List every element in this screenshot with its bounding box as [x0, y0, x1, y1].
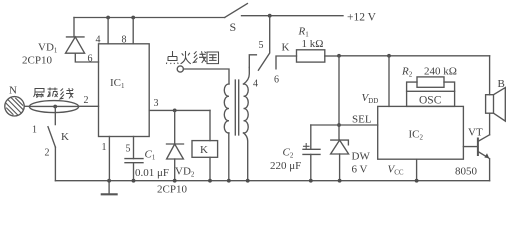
svg-text:240 kΩ: 240 kΩ: [424, 66, 457, 78]
svg-text:5: 5: [259, 40, 264, 51]
transistor VT 8050: [463, 146, 478, 148]
svg-text:3: 3: [154, 98, 159, 109]
relay contact 6: [276, 56, 297, 69]
svg-text:0.01 μF: 0.01 μF: [135, 167, 169, 179]
svg-text:6: 6: [88, 54, 93, 65]
diode VD1: [73, 18, 75, 37]
svg-text:VT: VT: [468, 127, 483, 139]
speaker B: [489, 56, 491, 95]
svg-text:VDD: VDD: [362, 92, 379, 105]
wire VCC pin: [416, 159, 418, 181]
svg-text:VCC: VCC: [388, 164, 404, 177]
wire oval to pin 2: [79, 105, 99, 107]
svg-text:IC2: IC2: [409, 129, 424, 142]
svg-text:4: 4: [96, 35, 101, 46]
label shielded wire 屏蔽线 (drawn): [34, 88, 74, 100]
svg-text:C2: C2: [283, 147, 294, 160]
svg-text:220 μF: 220 μF: [270, 160, 301, 172]
relay coil K box: [192, 141, 218, 158]
wire pin 3: [149, 109, 210, 111]
svg-text:IC1: IC1: [110, 77, 125, 90]
transformer T primary winding: [224, 84, 229, 133]
switch K left branch: [54, 107, 56, 125]
switch S: [225, 4, 248, 18]
relay blade K: [258, 16, 269, 70]
svg-text:OSC: OSC: [419, 95, 442, 107]
zener DW: [331, 140, 349, 145]
resistor R1: [297, 50, 325, 62]
IC U2 box: [378, 106, 464, 159]
svg-text:B: B: [498, 78, 505, 90]
svg-text:8: 8: [122, 35, 127, 46]
svg-text:K: K: [200, 144, 208, 156]
capacitor C2: [310, 125, 312, 149]
svg-text:R1: R1: [298, 26, 310, 39]
svg-text:2CP10: 2CP10: [22, 55, 52, 67]
OSC box: [407, 91, 455, 106]
label ignition coil 点火线圈 (drawn): [166, 51, 218, 64]
svg-text:N: N: [9, 85, 17, 97]
屏: [34, 89, 45, 98]
node junction in oval: [53, 105, 57, 109]
capacitor C1: [133, 137, 135, 159]
svg-text:VD2: VD2: [175, 166, 195, 179]
svg-text:2: 2: [84, 95, 89, 106]
svg-text:4: 4: [253, 79, 258, 90]
svg-text:1 kΩ: 1 kΩ: [302, 38, 324, 50]
wire pin4 riser: [107, 18, 109, 44]
svg-text:5: 5: [126, 144, 131, 155]
svg-text:C1: C1: [145, 149, 156, 162]
svg-text:2CP10: 2CP10: [157, 184, 187, 196]
点: [166, 51, 178, 64]
ignition coil terminal: [177, 66, 183, 72]
IC U1 box: [99, 44, 150, 137]
svg-text:1: 1: [102, 142, 107, 153]
wire main drop to zener: [338, 56, 340, 140]
svg-text:6 V: 6 V: [352, 164, 368, 176]
wire bottom rail: [55, 180, 489, 182]
svg-text:VD1: VD1: [38, 42, 58, 55]
svg-text:1: 1: [32, 125, 37, 136]
线: [60, 88, 74, 99]
svg-text:R2: R2: [401, 66, 413, 79]
ground: [108, 181, 110, 195]
wire probe to oval: [24, 105, 29, 107]
svg-text:S: S: [230, 20, 237, 34]
wire SEL: [311, 124, 378, 126]
wire top rail left: [74, 17, 225, 19]
wire pin1 stem: [108, 137, 110, 181]
wire terminal to primary: [183, 69, 229, 84]
wire VDD pin: [388, 56, 390, 107]
diode VD2: [174, 110, 176, 144]
wire through oval: [29, 105, 78, 107]
node dot pin4 riser: [106, 16, 110, 20]
圈: [207, 52, 219, 64]
火: [181, 51, 191, 64]
svg-text:K: K: [61, 131, 69, 143]
transformer core: [235, 80, 238, 135]
probe electrode N: [5, 97, 24, 116]
svg-text:SEL: SEL: [352, 114, 372, 126]
wire supply W: [339, 55, 490, 57]
svg-text:8050: 8050: [455, 166, 478, 178]
svg-text:DW: DW: [352, 151, 371, 163]
resistor R2: [417, 77, 444, 87]
svg-text:+12 V: +12 V: [347, 12, 377, 24]
蔽: [48, 88, 58, 98]
node dot pin8 riser: [131, 16, 135, 20]
wire pin8 riser: [132, 18, 134, 44]
node dot relay riser: [268, 14, 272, 18]
svg-text:6: 6: [274, 75, 279, 86]
svg-text:K: K: [282, 42, 290, 54]
shielded wire oval: [29, 101, 78, 113]
svg-text:2: 2: [45, 148, 50, 159]
线: [193, 51, 206, 63]
relay contact 5: [249, 55, 256, 68]
transformer T secondary winding: [244, 84, 249, 133]
